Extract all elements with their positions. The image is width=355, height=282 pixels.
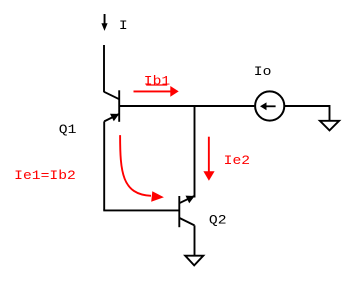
current arrow Ie1=Ib2 (red curved arrow) xyxy=(120,135,151,196)
svg-text:Q1: Q1 xyxy=(59,123,77,138)
wire: junction down to Q2 emitter xyxy=(194,106,196,198)
current source Io (circle) xyxy=(255,91,284,120)
Q1 emitter arrowhead (points toward bar) xyxy=(110,114,119,122)
svg-text:Ie2: Ie2 xyxy=(224,154,250,169)
wire: bottom horizontal to Q2 base xyxy=(103,209,179,211)
current arrow I (top, pointing down) xyxy=(101,14,107,31)
wire: Q1 emitter down left side xyxy=(103,121,105,210)
current source arrow (points left) xyxy=(260,102,276,110)
current label Ib1 underline xyxy=(146,84,167,86)
ground (below Q2) xyxy=(185,256,203,266)
curved arrow head (points right) xyxy=(151,191,164,202)
current arrow Ie2 (red, points down) xyxy=(203,137,214,181)
wire: Q1 base to current source (horizontal) xyxy=(119,105,254,107)
transistor Q2 (NPN flipped, base bar left, leads right) xyxy=(179,196,194,227)
svg-text:I: I xyxy=(119,19,128,34)
svg-text:Ie1=Ib2: Ie1=Ib2 xyxy=(14,169,76,184)
svg-text:Ib1: Ib1 xyxy=(144,74,170,89)
current arrow Ib1 (red, points right) xyxy=(134,86,179,97)
ground (right) xyxy=(320,121,339,131)
transistor Q1 (PNP, base bar right, leads left) xyxy=(104,90,119,122)
wire: current source to right corner xyxy=(284,106,329,121)
wire: top lead down to Q1 collector xyxy=(103,45,105,92)
svg-text:Io: Io xyxy=(254,65,272,80)
wire: Q2 collector down to ground xyxy=(194,225,196,255)
Q2 emitter arrowhead (points up-right at junction) xyxy=(186,196,195,204)
svg-text:Q2: Q2 xyxy=(209,213,227,228)
